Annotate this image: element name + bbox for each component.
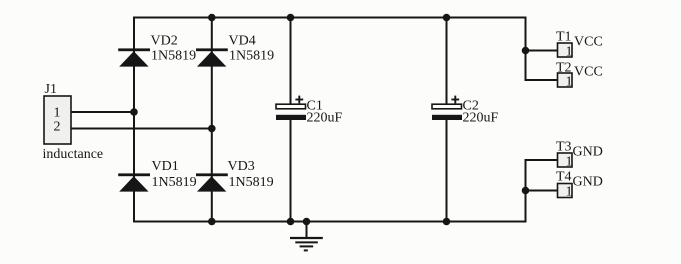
capacitor C2 bbox=[432, 96, 462, 120]
svg-text:T4: T4 bbox=[556, 170, 572, 185]
svg-text:T3: T3 bbox=[556, 140, 572, 155]
wire right column upper (VCC branch) bbox=[525, 17, 527, 81]
wire to T1 bbox=[526, 50, 558, 52]
junction bottom bus / ground bbox=[303, 218, 311, 226]
svg-text:1N5819: 1N5819 bbox=[229, 175, 274, 190]
diode VD3 bbox=[196, 173, 228, 191]
svg-text:VD1: VD1 bbox=[152, 159, 179, 174]
connector J1 body bbox=[44, 96, 71, 144]
junction top bus / C1 column bbox=[287, 14, 295, 22]
svg-text:1: 1 bbox=[566, 45, 573, 60]
diode VD2 bbox=[118, 48, 150, 66]
svg-text:1: 1 bbox=[566, 75, 573, 90]
junction pin2 / second column bbox=[208, 125, 216, 133]
svg-text:inductance: inductance bbox=[43, 147, 104, 162]
svg-text:1N5819: 1N5819 bbox=[152, 175, 197, 190]
wire second column (VD4/VD3 branch) bbox=[211, 18, 213, 222]
junction pin1 / left column bbox=[130, 108, 138, 116]
svg-text:GND: GND bbox=[573, 145, 603, 160]
svg-text:VD3: VD3 bbox=[228, 159, 255, 174]
junction top bus / C2 column bbox=[443, 14, 451, 22]
wire J1 pin 2 bbox=[71, 128, 212, 130]
terminal T4 body bbox=[558, 184, 573, 198]
svg-text:1: 1 bbox=[566, 185, 573, 200]
junction right column / T1 bbox=[522, 47, 530, 55]
svg-text:1: 1 bbox=[54, 106, 61, 121]
wire C2 column lower bbox=[446, 120, 448, 222]
svg-text:220uF: 220uF bbox=[307, 111, 343, 126]
wire C1 column lower bbox=[290, 120, 292, 222]
diode VD4 bbox=[196, 48, 228, 66]
wire to T3 bbox=[525, 159, 558, 161]
wire J1 pin 1 bbox=[71, 111, 134, 113]
wire ground stem bbox=[306, 222, 308, 238]
junction bottom bus / C2 column bbox=[443, 218, 451, 226]
svg-text:VCC: VCC bbox=[574, 65, 603, 80]
svg-text:VD4: VD4 bbox=[229, 34, 256, 49]
svg-text:J1: J1 bbox=[45, 82, 57, 97]
junction top bus / VD4 column bbox=[208, 14, 216, 22]
svg-text:1: 1 bbox=[566, 155, 573, 170]
svg-text:T2: T2 bbox=[556, 61, 572, 76]
wire to T4 bbox=[526, 190, 558, 192]
terminal T1 body bbox=[558, 43, 573, 57]
svg-text:VCC: VCC bbox=[574, 35, 603, 50]
svg-text:1N5819: 1N5819 bbox=[229, 49, 274, 64]
junction right column / T4 bbox=[522, 187, 530, 195]
svg-text:2: 2 bbox=[54, 120, 61, 135]
terminal T2 body bbox=[558, 73, 573, 87]
wire to T2 bbox=[525, 79, 558, 81]
wire C2 column upper bbox=[446, 18, 448, 105]
ground bbox=[290, 238, 323, 250]
wire C1 column upper bbox=[290, 18, 292, 105]
junction bottom bus / C1 column bbox=[287, 218, 295, 226]
svg-text:1N5819: 1N5819 bbox=[151, 49, 196, 64]
terminal T3 body bbox=[558, 153, 573, 167]
wire top bus bbox=[133, 17, 527, 19]
capacitor C1 bbox=[276, 96, 306, 120]
svg-text:220uF: 220uF bbox=[463, 111, 499, 126]
diode VD1 bbox=[118, 173, 150, 191]
svg-text:T1: T1 bbox=[556, 30, 572, 45]
wire left column (VD2/VD1 branch) bbox=[133, 17, 135, 223]
junction bottom bus / VD3 column bbox=[208, 218, 216, 226]
svg-text:VD2: VD2 bbox=[151, 34, 178, 49]
svg-text:GND: GND bbox=[573, 175, 603, 190]
wire bottom bus bbox=[133, 221, 527, 223]
wire right column lower (GND branch) bbox=[525, 160, 527, 223]
